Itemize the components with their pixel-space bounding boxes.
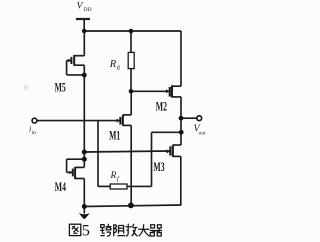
svg-text:M4: M4: [55, 181, 66, 194]
svg-text:DD: DD: [84, 7, 92, 13]
svg-text:R: R: [110, 171, 117, 181]
svg-text:M1: M1: [109, 130, 120, 143]
svg-text:R: R: [109, 59, 117, 70]
svg-text:in: in: [32, 130, 37, 136]
svg-text:M5: M5: [55, 82, 66, 95]
svg-text:M3: M3: [153, 162, 164, 175]
svg-text:out: out: [199, 131, 207, 137]
svg-text:d: d: [117, 66, 120, 72]
svg-text:M2: M2: [156, 101, 167, 114]
svg-text:5: 5: [82, 222, 90, 239]
